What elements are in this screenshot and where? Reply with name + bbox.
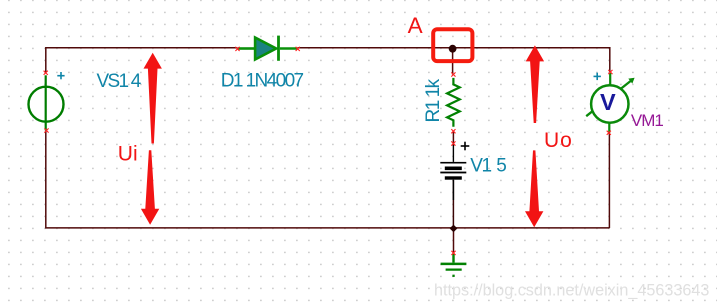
arrow Uo down <box>525 150 543 227</box>
node A highlight square <box>433 29 472 61</box>
x voltmeter top <box>608 70 612 74</box>
x resistor top <box>451 72 455 76</box>
arrow Ui up <box>144 53 162 144</box>
VM1 plus sign <box>594 73 601 80</box>
V1 plus sign <box>461 142 470 151</box>
battery V1 <box>440 145 466 200</box>
x VS1 bottom <box>44 128 48 132</box>
voltmeter VM1 <box>586 73 634 133</box>
svg-text:VS1: VS1 <box>97 71 129 92</box>
svg-text:5: 5 <box>496 155 507 176</box>
x VS1 top <box>44 71 48 75</box>
x voltmeter bottom <box>607 131 611 135</box>
x diode anode <box>235 47 239 51</box>
wire: resistor R1 to battery V1 <box>452 131 454 146</box>
node A junction <box>449 45 457 53</box>
arrow Ui down <box>141 150 159 224</box>
ground <box>441 254 467 276</box>
svg-text:VM1: VM1 <box>631 111 664 130</box>
diode D1 <box>238 36 298 61</box>
wire: diode cathode to top-right corner down to voltmeter <box>298 48 610 72</box>
ground junction <box>450 225 458 233</box>
svg-text:Uo: Uo <box>544 129 573 152</box>
x resistor bottom <box>451 129 455 133</box>
svg-text:V: V <box>600 89 616 115</box>
svg-text:4: 4 <box>131 71 142 92</box>
x diode cathode <box>296 47 300 51</box>
svg-text:https://blog.csdn.net/weixin_4: https://blog.csdn.net/weixin_45633643 <box>434 281 709 299</box>
wire: node A to resistor R1 <box>452 48 454 75</box>
arrow Uo up <box>526 45 544 123</box>
x ground <box>451 251 455 255</box>
resistor R1 <box>447 78 460 127</box>
voltage source VS1 <box>29 75 64 130</box>
svg-text:Ui: Ui <box>118 142 138 165</box>
VS1 plus sign <box>57 72 64 79</box>
wire: voltmeter to bottom rail <box>608 133 610 229</box>
connection point marks (red x) <box>44 47 613 255</box>
svg-text:D1 1N4007: D1 1N4007 <box>221 71 304 92</box>
svg-text:A: A <box>408 13 423 38</box>
wire: bottom rail and left rail <box>46 131 610 228</box>
wire: battery V1 to bottom rail <box>452 180 454 228</box>
svg-text:R1 1k: R1 1k <box>423 78 444 122</box>
x battery top <box>451 141 455 145</box>
wire: top-left corner (VS1 top to diode anode) <box>46 48 238 73</box>
wire: ground stub <box>453 228 455 253</box>
svg-text:V1: V1 <box>470 155 491 176</box>
